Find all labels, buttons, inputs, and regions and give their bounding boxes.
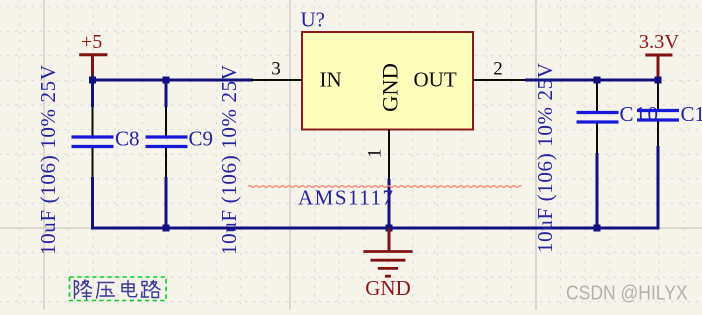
svg-text:GND: GND	[378, 63, 403, 112]
capacitor C9	[146, 107, 214, 177]
power symbol 3.3V	[639, 31, 680, 80]
ground symbol GND	[363, 228, 412, 300]
svg-text:C9: C9	[189, 127, 214, 151]
wire bottom bus	[93, 146, 659, 228]
junction node (166,80)	[163, 77, 170, 84]
wire C9 bottom	[165, 177, 168, 228]
wire C8 top	[91, 80, 94, 107]
capacitor C8	[72, 107, 140, 177]
wire top-left bus	[93, 79, 254, 82]
svg-text:C10: C10	[620, 102, 659, 126]
power symbol +5	[79, 31, 107, 80]
U1 pin 1 GND	[365, 63, 403, 179]
wire regulator pin1 to gnd bus	[388, 179, 391, 228]
svg-text:10uF (106) 10% 25V: 10uF (106) 10% 25V	[533, 63, 557, 253]
junction node (389,228)	[386, 225, 393, 232]
capacitor C10	[577, 80, 659, 153]
svg-text:1: 1	[365, 149, 386, 159]
svg-text:CSDN @HILYX: CSDN @HILYX	[566, 282, 688, 305]
svg-text:OUT: OUT	[414, 68, 457, 92]
svg-text:GND: GND	[365, 276, 411, 300]
text frame 降压电路	[70, 277, 167, 301]
wire C9 top	[165, 80, 168, 107]
U1 pin 2 OUT	[414, 59, 526, 92]
svg-text:C11: C11	[681, 102, 702, 126]
junction node (597,228)	[594, 225, 601, 232]
junction node (166,228)	[163, 225, 170, 232]
capacitor C11	[637, 80, 702, 146]
svg-text:10uF (106) 10% 25V: 10uF (106) 10% 25V	[36, 65, 60, 255]
regulator U1 body	[302, 32, 473, 130]
svg-text:IN: IN	[320, 68, 342, 92]
svg-text:10uF (106) 10% 25V: 10uF (106) 10% 25V	[217, 65, 241, 255]
junction node (597,80)	[594, 77, 601, 84]
svg-text:C8: C8	[115, 127, 140, 151]
junction node (658,80)	[655, 77, 662, 84]
svg-text:3: 3	[271, 59, 281, 80]
svg-text:3.3V: 3.3V	[639, 31, 680, 53]
svg-text:+5: +5	[81, 31, 102, 53]
svg-text:AMS1117: AMS1117	[298, 186, 393, 210]
svg-text:U?: U?	[301, 8, 326, 32]
wire top-right bus	[525, 79, 658, 82]
spell squiggle	[248, 186, 522, 188]
wire C10 bottom	[596, 153, 599, 228]
svg-text:2: 2	[493, 59, 503, 80]
junction node (92.5,80)	[89, 77, 96, 84]
U1 pin 3 IN	[251, 59, 342, 92]
